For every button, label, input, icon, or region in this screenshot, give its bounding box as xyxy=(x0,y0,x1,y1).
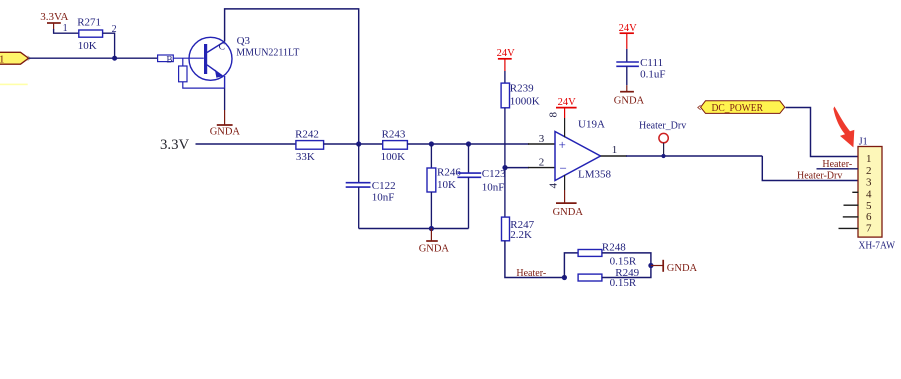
svg-text:C: C xyxy=(219,43,225,53)
svg-text:GNDA: GNDA xyxy=(419,243,450,254)
resistor R242 33K xyxy=(295,129,324,163)
svg-text:R271: R271 xyxy=(77,17,101,29)
svg-text:R243: R243 xyxy=(382,129,406,141)
svg-text:−: − xyxy=(560,160,567,175)
node: R246 top junction xyxy=(429,141,434,146)
svg-text:C111: C111 xyxy=(640,57,663,69)
svg-text:Heater-: Heater- xyxy=(516,268,546,279)
wire: J1 pin5 stub xyxy=(844,204,859,206)
svg-text:6: 6 xyxy=(866,211,872,223)
svg-text:7: 7 xyxy=(866,222,872,234)
svg-text:0.15R: 0.15R xyxy=(610,256,637,268)
wire: R247 down to Heater- rail xyxy=(505,241,565,278)
svg-text:10K: 10K xyxy=(437,179,456,191)
net tag DC_POWER xyxy=(698,101,785,114)
svg-text:24V: 24V xyxy=(619,23,638,34)
transistor Q3 MMUN2211LT xyxy=(158,35,300,88)
power 24V (above C111) xyxy=(619,23,638,49)
wire: R243 to op-amp pin3 xyxy=(407,143,529,145)
svg-text:Heater-: Heater- xyxy=(822,159,852,170)
svg-text:3: 3 xyxy=(866,177,872,189)
wire: Q3 collector up and over to divider node xyxy=(225,9,359,144)
wire: DC_POWER to J1 pin1 xyxy=(786,108,859,157)
wire: up to R248 xyxy=(564,253,578,278)
ground GNDA (op-amp pin4) xyxy=(553,190,584,218)
svg-text:R248: R248 xyxy=(602,242,626,254)
node: junction under R271 pin2 xyxy=(112,56,117,61)
capacitor C122 10nF xyxy=(346,144,396,229)
svg-text:1: 1 xyxy=(612,144,618,156)
node: op-amp pin2 junction xyxy=(502,165,507,170)
svg-text:DC_POWER: DC_POWER xyxy=(712,103,764,114)
svg-text:10nF: 10nF xyxy=(372,191,395,203)
wire: R249 to right junction xyxy=(602,266,651,278)
node: divider/collector junction xyxy=(356,141,361,146)
wire: J1 pin4 stub xyxy=(852,191,858,193)
wire: Q3 emitter down xyxy=(224,88,226,110)
node: C123 top junction xyxy=(466,141,471,146)
wire: R271 pin2 down to main input wire xyxy=(103,33,115,58)
capacitor C123 10nF xyxy=(457,144,506,229)
svg-text:Heater-Drv: Heater-Drv xyxy=(797,171,842,182)
svg-text:XH-7AW: XH-7AW xyxy=(859,241,896,252)
svg-text:24V: 24V xyxy=(558,97,577,108)
svg-text:4: 4 xyxy=(866,188,872,200)
svg-text:GNDA: GNDA xyxy=(210,126,241,137)
wire: J1 pin2 stub xyxy=(817,168,859,170)
svg-text:GNDA: GNDA xyxy=(553,207,584,218)
power 3.3VA xyxy=(40,11,68,30)
svg-text:10nF: 10nF xyxy=(482,182,505,194)
power 24V (above op-amp pin8) xyxy=(556,97,577,118)
svg-text:2.2K: 2.2K xyxy=(510,229,532,241)
node: Heater- junction xyxy=(562,275,567,280)
svg-text:B: B xyxy=(167,55,173,65)
svg-text:2: 2 xyxy=(866,165,872,177)
resistor R239 1000K xyxy=(501,83,540,108)
node: output/test point junction xyxy=(661,154,665,158)
svg-text:U19A: U19A xyxy=(578,118,605,130)
wire: op-amp output xyxy=(601,155,628,157)
svg-text:2: 2 xyxy=(539,156,545,168)
svg-text:MMUN2211LT: MMUN2211LT xyxy=(236,47,299,58)
connector J1 XH-7AW xyxy=(858,137,895,252)
svg-text:3.3VA: 3.3VA xyxy=(40,11,68,23)
svg-text:33K: 33K xyxy=(296,151,315,163)
op-amp U19A LM358 xyxy=(539,112,618,191)
svg-text:10K: 10K xyxy=(78,40,97,52)
svg-text:0.1uF: 0.1uF xyxy=(640,69,665,81)
ground GNDA (right of R248/R249) xyxy=(651,260,698,274)
svg-text:1000K: 1000K xyxy=(510,96,540,108)
svg-text:GNDA: GNDA xyxy=(614,95,645,106)
red annotation arrow xyxy=(833,106,854,147)
capacitor C111 0.1uF xyxy=(616,49,665,85)
svg-text:1: 1 xyxy=(0,53,5,65)
svg-text:R239: R239 xyxy=(510,83,534,95)
svg-text:8: 8 xyxy=(548,112,560,118)
svg-text:LM358: LM358 xyxy=(578,168,612,180)
wire: tag to Q3 base xyxy=(29,57,158,59)
wire: R239 down to pin2 node and to R247 xyxy=(504,108,506,217)
wire: 3.3V to R242 xyxy=(196,143,296,145)
resistor R248 0.15R xyxy=(578,242,637,268)
resistor R246 10K xyxy=(427,144,461,229)
wire: 3.3VA to R271 pin1 xyxy=(54,29,79,33)
wire: bottom rail C122-R246-C123 xyxy=(359,228,469,230)
svg-text:100K: 100K xyxy=(381,151,406,163)
wire: R242 to R243 xyxy=(324,143,383,145)
stray pale yellow line xyxy=(0,84,28,86)
svg-text:3: 3 xyxy=(539,133,545,145)
ground GNDA (under Q3) xyxy=(210,110,241,137)
resistor R271 10K xyxy=(63,17,117,52)
wire: pin2 node to op-amp inverting input xyxy=(505,167,529,169)
svg-text:24V: 24V xyxy=(497,48,515,59)
svg-text:R242: R242 xyxy=(295,129,319,141)
svg-text:0.15R: 0.15R xyxy=(610,277,637,289)
svg-text:1: 1 xyxy=(63,23,68,34)
wire: J1 pin7 stub xyxy=(839,227,859,229)
svg-text:+: + xyxy=(559,137,566,152)
wire: J1 pin6 stub xyxy=(843,216,859,218)
resistor R243 100K xyxy=(381,129,408,163)
resistor R249 0.15R xyxy=(578,267,640,289)
svg-text:Heater_Drv: Heater_Drv xyxy=(639,121,686,132)
ground GNDA (bottom rail) xyxy=(419,229,450,255)
test point Heater_Drv xyxy=(639,121,686,156)
ground GNDA (under C111) xyxy=(614,85,645,106)
svg-text:GNDA: GNDA xyxy=(667,263,698,274)
svg-text:C123: C123 xyxy=(482,168,506,180)
svg-text:3.3V: 3.3V xyxy=(160,137,189,153)
wire: output to J1 pin3 xyxy=(762,156,858,181)
node: R248/R249 right junction xyxy=(648,263,653,268)
wire: 24V to R239 xyxy=(504,71,506,83)
net tag 1 (left edge, partially cut) xyxy=(0,52,30,65)
svg-text:Q3: Q3 xyxy=(237,35,251,47)
power 24V (above R239) xyxy=(497,48,515,71)
svg-text:1: 1 xyxy=(866,153,872,165)
svg-text:4: 4 xyxy=(548,183,560,189)
node: bottom rail junction xyxy=(429,226,434,231)
resistor R247 2.2K xyxy=(502,217,535,241)
wire: R248 to right junction xyxy=(602,253,651,266)
